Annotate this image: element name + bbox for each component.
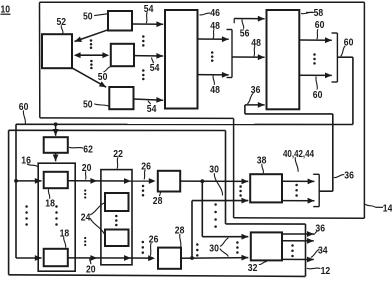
svg-text:50: 50 (83, 99, 93, 110)
svg-text:12: 12 (321, 266, 331, 277)
svg-text:26: 26 (149, 234, 159, 245)
svg-text:60: 60 (313, 90, 323, 101)
svg-text:26: 26 (141, 161, 151, 172)
svg-text:50: 50 (83, 11, 93, 22)
svg-text:14: 14 (383, 203, 392, 214)
svg-text:48: 48 (251, 38, 261, 49)
svg-text:48: 48 (210, 85, 220, 96)
svg-text:18: 18 (45, 199, 55, 210)
svg-text:58: 58 (314, 8, 324, 19)
svg-text:62: 62 (83, 144, 93, 155)
svg-text:54: 54 (144, 4, 154, 15)
svg-text:22: 22 (113, 149, 123, 160)
svg-text:34: 34 (318, 245, 328, 256)
svg-text:36: 36 (315, 223, 325, 234)
svg-text:36: 36 (344, 170, 354, 181)
svg-text:50: 50 (98, 72, 108, 83)
svg-text:38: 38 (257, 155, 267, 166)
svg-text:24: 24 (81, 212, 91, 223)
svg-text:60: 60 (315, 20, 325, 31)
svg-text:30: 30 (209, 164, 219, 175)
svg-text:52: 52 (57, 17, 67, 28)
svg-text:56: 56 (240, 29, 250, 40)
svg-text:48: 48 (210, 21, 220, 32)
svg-text:18: 18 (60, 228, 70, 239)
svg-text:36: 36 (251, 85, 261, 96)
svg-text:28: 28 (153, 196, 163, 207)
svg-text:60: 60 (19, 102, 29, 113)
svg-text:54: 54 (150, 63, 160, 74)
svg-text:32: 32 (248, 263, 258, 274)
svg-text:28: 28 (175, 225, 185, 236)
svg-text:40,42,44: 40,42,44 (283, 149, 314, 160)
svg-text:60: 60 (344, 38, 354, 49)
svg-text:30: 30 (209, 243, 219, 254)
svg-text:16: 16 (21, 155, 31, 166)
svg-text:20: 20 (82, 163, 92, 174)
svg-text:46: 46 (210, 8, 220, 19)
svg-text:20: 20 (86, 264, 96, 275)
svg-text:54: 54 (147, 104, 157, 115)
